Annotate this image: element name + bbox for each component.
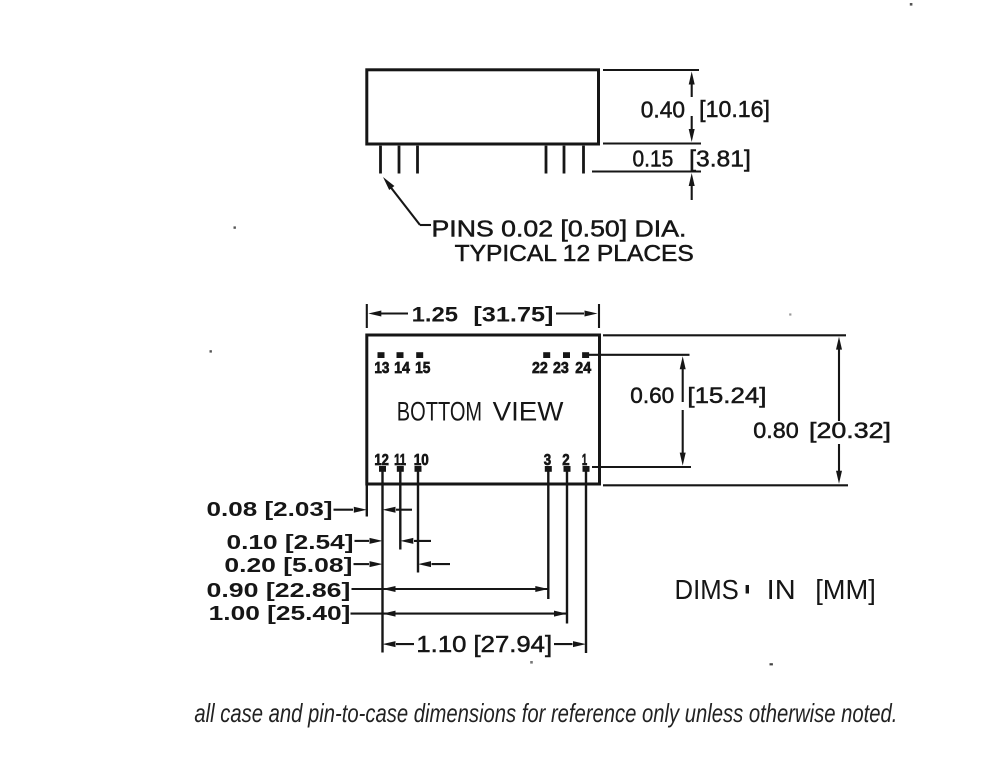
- pin 3 extension line: [547, 472, 549, 600]
- scan speck near left of bottom view: [210, 350, 212, 352]
- svg-text:24: 24: [575, 360, 591, 377]
- label [MM]: [815, 574, 876, 605]
- pin 11 dot: [397, 466, 404, 472]
- svg-text:1.25: 1.25: [412, 303, 459, 326]
- svg-text:0.20 [5.08]: 0.20 [5.08]: [224, 555, 352, 577]
- label IN: [767, 574, 796, 605]
- dimension 1.10 [27.94]: [383, 631, 587, 657]
- svg-text:1.10 [27.94]: 1.10 [27.94]: [416, 631, 552, 657]
- label 1.25: [412, 303, 459, 326]
- pin 14 number: [394, 360, 410, 377]
- svg-text:0.60: 0.60: [630, 383, 674, 408]
- bottom view case outline: [367, 335, 600, 484]
- side view pin 2: [398, 146, 401, 174]
- side view pin 1: [379, 146, 382, 174]
- scan speck top right: [910, 3, 913, 6]
- scan speck left middle: [234, 226, 236, 228]
- extension line top pin row level: [589, 354, 690, 356]
- svg-text:22: 22: [532, 360, 548, 377]
- pin 3 dot: [545, 466, 552, 472]
- pin 24 number: [575, 360, 591, 377]
- extension line case-top level: [603, 69, 699, 71]
- label 0.80: [753, 418, 798, 443]
- pin 14 dot: [397, 352, 404, 358]
- label [31.75]: [473, 303, 553, 326]
- label [15.24]: [687, 383, 766, 408]
- svg-text:PINS 0.02 [0.50] DIA.: PINS 0.02 [0.50] DIA.: [432, 216, 687, 242]
- label 0.40: [641, 97, 685, 123]
- dimension 0.10 [2.54]: [227, 532, 432, 554]
- svg-text:15: 15: [415, 360, 430, 377]
- extension line bottom pin row level: [592, 466, 691, 468]
- pin 12 extension line: [381, 472, 383, 653]
- svg-text:0.08 [2.03]: 0.08 [2.03]: [207, 499, 333, 521]
- dimension 0.15 [3.81] lower arrow: [689, 173, 695, 200]
- dimension 0.60 [15.24] dim line: [680, 356, 686, 465]
- svg-text:0.15: 0.15: [633, 146, 674, 172]
- dimension 0.90 [22.86]: [207, 580, 549, 602]
- extension line pin-bottom level: [592, 170, 701, 172]
- dimension 1.00 [25.40]: [209, 603, 567, 625]
- pin 2 number: [562, 452, 569, 469]
- svg-text:VIEW: VIEW: [493, 397, 564, 427]
- pin 13 dot: [378, 352, 385, 358]
- dimension 0.20 [5.08]: [224, 555, 450, 577]
- pin 3 number: [544, 452, 551, 469]
- pin 22 dot: [543, 352, 550, 358]
- svg-text:TYPICAL 12 PLACES: TYPICAL 12 PLACES: [455, 240, 694, 266]
- pin 24 dot: [582, 352, 589, 358]
- dimension 0.08 [2.03]: [207, 499, 413, 521]
- svg-text:23: 23: [553, 360, 569, 377]
- side view pin 6: [582, 146, 585, 174]
- pin 2 dot: [564, 466, 571, 472]
- svg-text:[3.81]: [3.81]: [689, 146, 751, 172]
- svg-text:14: 14: [394, 360, 410, 377]
- label 0.15: [633, 146, 674, 172]
- pin 12 number: [374, 452, 389, 469]
- extension line bottom edge level: [603, 484, 848, 486]
- svg-text:BOTTOM: BOTTOM: [397, 397, 482, 427]
- svg-text:all case and pin-to-case dimen: all case and pin-to-case dimensions for …: [194, 698, 897, 728]
- extension line case-bottom level: [603, 142, 701, 144]
- scan speck right of TYPICAL: [789, 313, 791, 315]
- side view case outline: [367, 70, 599, 144]
- pin 2 extension line: [566, 472, 568, 624]
- dimension 0.40 [10.16] vertical dim line with arrows: [689, 72, 695, 143]
- side view pin 4: [545, 146, 548, 174]
- label VIEW: [493, 397, 564, 427]
- pin 12 dot: [379, 466, 386, 472]
- footer note: [194, 698, 897, 728]
- pin 10 dot: [415, 466, 422, 472]
- svg-text:1.00 [25.40]: 1.00 [25.40]: [209, 603, 351, 625]
- side view pin 5: [563, 146, 566, 174]
- svg-text:[15.24]: [15.24]: [687, 383, 766, 408]
- pin 22 number: [532, 360, 548, 377]
- dimension 1.25 [31.75] dim line with arrows: [368, 311, 597, 317]
- svg-text:[MM]: [MM]: [815, 574, 876, 605]
- label DIMS: [675, 574, 739, 605]
- extension line top edge level: [603, 334, 846, 336]
- svg-text:0.90 [22.86]: 0.90 [22.86]: [207, 580, 351, 602]
- pin 11 number: [394, 452, 406, 469]
- pin 11 extension line: [399, 472, 401, 550]
- pin 13 number: [374, 360, 389, 377]
- label BOTTOM: [397, 397, 482, 427]
- case left edge extension line: [366, 486, 368, 517]
- svg-text:0.10 [2.54]: 0.10 [2.54]: [227, 532, 354, 554]
- svg-text:0.40: 0.40: [641, 97, 685, 123]
- pin 23 dot: [563, 352, 570, 358]
- svg-text:13: 13: [374, 360, 389, 377]
- leader arrow to pin 1 of side view: [383, 177, 431, 225]
- label [20.32]: [809, 418, 891, 443]
- side view pin 3: [416, 146, 419, 174]
- pin 1 dot: [583, 466, 590, 472]
- label [3.81]: [689, 146, 751, 172]
- label PINS 0.02 [0.50] DIA.: [432, 216, 687, 242]
- svg-text:DIMS: DIMS: [675, 574, 739, 605]
- pin 1 number: [582, 452, 587, 469]
- svg-text:[31.75]: [31.75]: [473, 303, 553, 326]
- pin 15 number: [415, 360, 430, 377]
- svg-text:IN: IN: [767, 574, 796, 605]
- pin 1 extension line: [585, 472, 587, 654]
- svg-text:[10.16]: [10.16]: [699, 96, 770, 122]
- label TYPICAL 12 PLACES: [455, 240, 694, 266]
- dimension 0.80 [20.32] dim line: [836, 337, 842, 484]
- svg-text:0.80: 0.80: [753, 418, 798, 443]
- pin 23 number: [553, 360, 569, 377]
- label 0.60: [630, 383, 674, 408]
- scan speck below pin 3 line: [530, 661, 533, 664]
- pin 10 extension line: [417, 472, 419, 573]
- label [10.16]: [699, 96, 770, 122]
- dimension 1.25 [31.75] extension ticks: [367, 304, 599, 328]
- pin 15 dot: [416, 352, 423, 358]
- period after DIMS: [746, 585, 749, 594]
- svg-text:[20.32]: [20.32]: [809, 418, 891, 443]
- pin 10 number: [414, 452, 429, 469]
- scan speck below 1.10 row: [770, 663, 773, 665]
